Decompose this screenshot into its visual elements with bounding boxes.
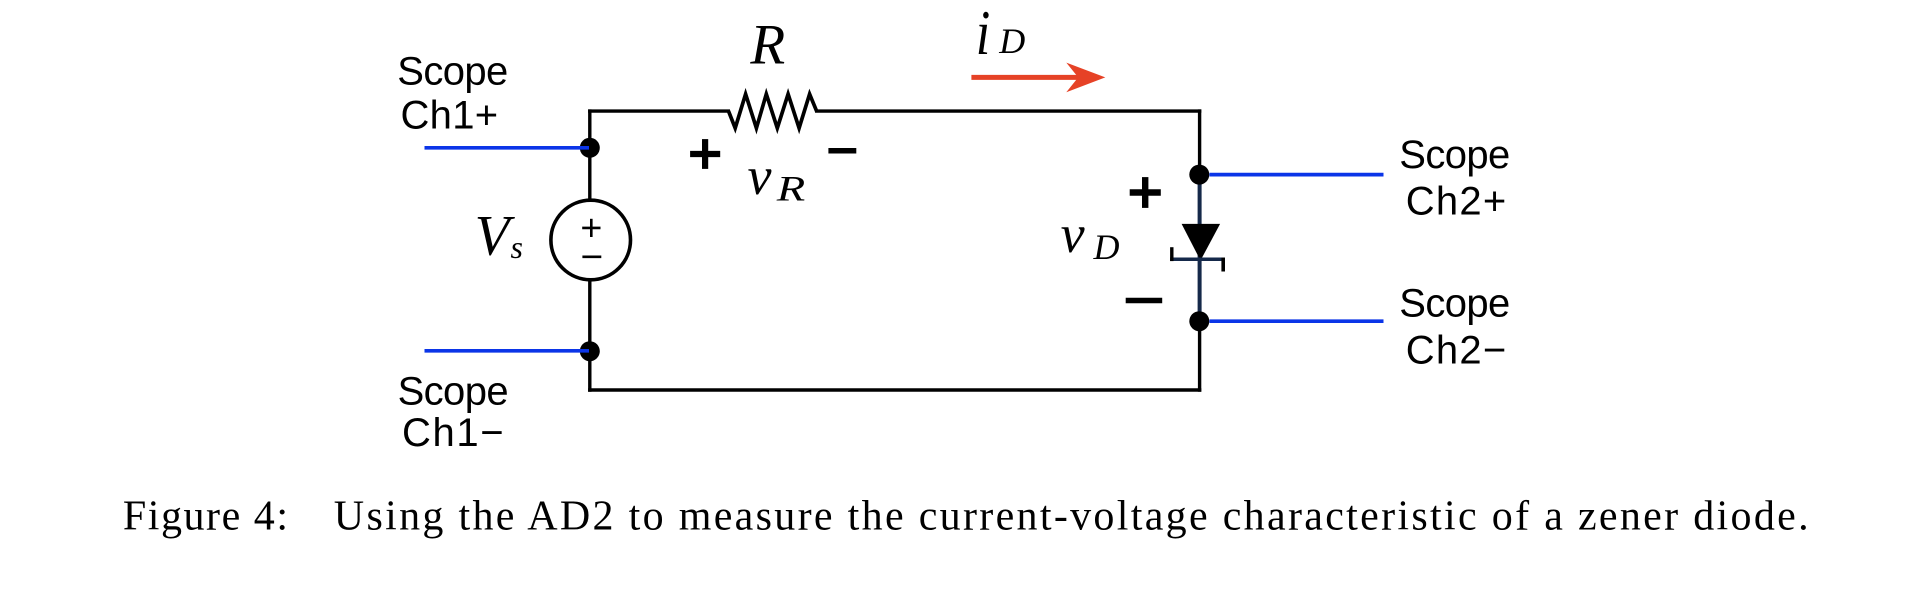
svg-text:D: D (998, 21, 1025, 61)
resistor R zigzag (729, 94, 817, 128)
svg-text:Figure 4:: Figure 4: (123, 494, 288, 540)
zener diode right tick (1221, 258, 1225, 272)
minus sign inside source (582, 255, 601, 258)
minus sign at resistor right (828, 148, 856, 154)
wire: left vertical lower (source bottom to bottom corner) (588, 279, 591, 392)
svg-text:Ch2−: Ch2− (1406, 329, 1506, 373)
zener diode cathode bar (1170, 258, 1225, 262)
svg-text:Scope: Scope (1399, 281, 1509, 325)
svg-text:R: R (776, 168, 806, 208)
plus sign at diode top (1130, 189, 1161, 195)
minus sign at diode bottom (1126, 298, 1163, 304)
wire: right vertical upper (top corner to Ch2+ node) (1198, 109, 1201, 176)
svg-text:Using the AD2 to measure the c: Using the AD2 to measure the current-vol… (334, 494, 1809, 540)
current arrow iD (971, 75, 1080, 80)
node Ch2+ dot (1189, 165, 1209, 185)
svg-text:Scope: Scope (1399, 133, 1509, 177)
plus sign inside source (582, 227, 600, 230)
wire: blue probe Ch2+ (1210, 173, 1384, 177)
svg-text:v: v (748, 146, 772, 206)
wire: bottom horizontal (588, 388, 1201, 391)
wire: left vertical upper (top corner to source top) (588, 109, 591, 201)
wire: blue probe Ch1- (425, 349, 590, 353)
svg-text:Scope: Scope (397, 49, 507, 93)
voltage source Vs circle (551, 200, 631, 280)
wire: blue probe Ch2- (1210, 319, 1384, 323)
node Ch1+ dot (580, 138, 600, 158)
svg-text:Scope: Scope (398, 369, 508, 413)
svg-text:Ch1+: Ch1+ (401, 94, 498, 138)
zener diode D triangle (1182, 224, 1221, 261)
svg-text:v: v (1061, 204, 1085, 264)
svg-text:Ch1−: Ch1− (402, 411, 503, 455)
svg-text:i: i (976, 0, 991, 68)
svg-text:s: s (511, 229, 523, 265)
wire: top horizontal right of resistor (815, 109, 1201, 112)
wire: right vertical lower (Ch2- node to bottom corner) (1198, 320, 1201, 392)
svg-text:D: D (1093, 227, 1120, 267)
wire: blue probe Ch1+ (425, 146, 590, 150)
zener diode left tick (1170, 247, 1173, 261)
svg-text:R: R (749, 13, 785, 76)
svg-text:Ch2+: Ch2+ (1406, 179, 1506, 223)
svg-text:V: V (475, 204, 516, 267)
node Ch1- dot (580, 341, 600, 361)
wire: top horizontal left of resistor (588, 109, 730, 112)
plus sign at resistor left (690, 151, 720, 157)
node Ch2- dot (1189, 311, 1209, 331)
wire: right vertical navy segment through diode (1198, 175, 1202, 322)
